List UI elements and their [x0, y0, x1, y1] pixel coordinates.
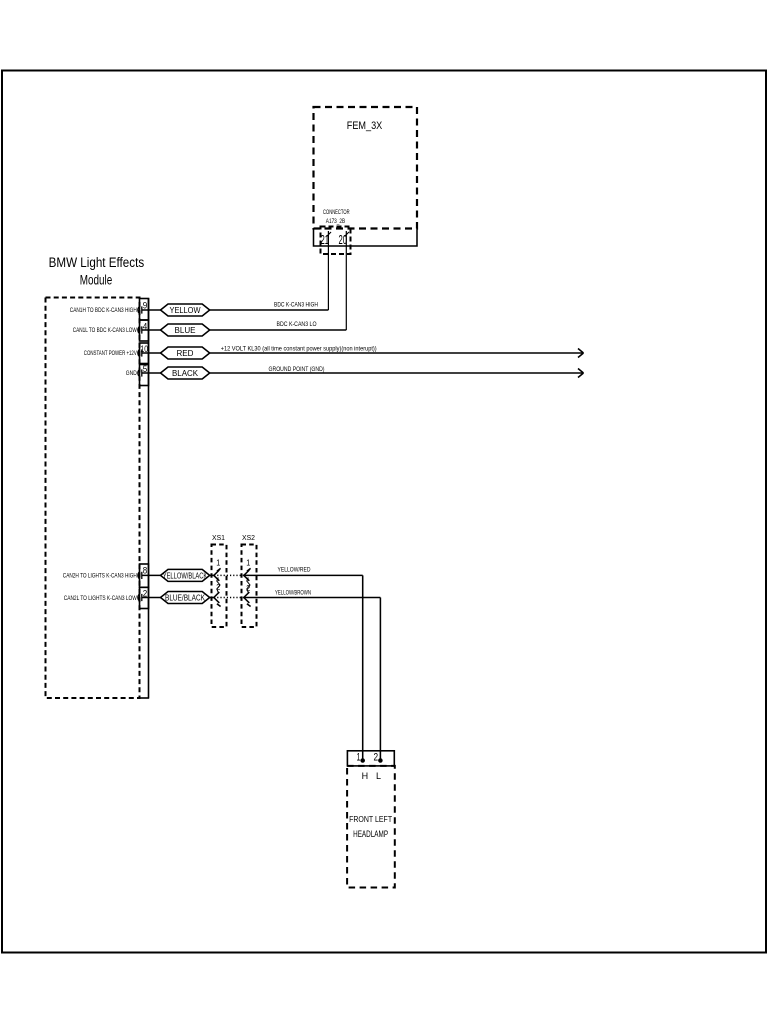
lamp DS1 dashed box — [347, 766, 395, 888]
svg-text:+12 VOLT KL30 (all time consta: +12 VOLT KL30 (all time constant power s… — [221, 345, 377, 352]
lamp DS1 FRONT LEFT HEADLAMP connector solid box — [347, 751, 394, 766]
connector XS2 dashed box — [242, 545, 257, 628]
svg-text:BMW Light Effects: BMW Light Effects — [49, 255, 145, 270]
headlamp pin 1 wire end — [361, 751, 364, 762]
pin socket symbol rowA — [138, 572, 142, 579]
svg-text:L: L — [376, 771, 381, 781]
wire FEM pin20 down to K-CAN3 LOW row — [345, 231, 349, 330]
pin socket symbol row3 — [138, 349, 142, 356]
svg-text:BLUE/BLACK: BLUE/BLACK — [165, 594, 205, 603]
pin socket symbol row2 — [138, 326, 142, 333]
svg-text:CONNECTOR: CONNECTOR — [323, 209, 350, 216]
wire row3 +12V constant power — [142, 349, 584, 358]
connector face of FEM_3X (solid) — [314, 229, 418, 247]
svg-text:FRONT LEFT: FRONT LEFT — [349, 815, 392, 824]
svg-text:CAN1H TO BDC K-CAN3 HIGH: CAN1H TO BDC K-CAN3 HIGH — [70, 307, 137, 314]
svg-text:1: 1 — [357, 751, 361, 763]
svg-text:FEM_3X: FEM_3X — [347, 120, 383, 132]
pin box 4 — [140, 320, 149, 341]
svg-text:1: 1 — [216, 558, 220, 568]
XS2 rowB arrow — [244, 592, 251, 606]
wire row2 K-CAN3 LO — [142, 329, 346, 331]
svg-text:BDC K-CAN3 LO: BDC K-CAN3 LO — [277, 321, 317, 328]
module U2 connector strip right edge — [148, 298, 150, 699]
wire rowB CAN2L lights — [142, 598, 380, 752]
svg-text:A173_2B: A173_2B — [326, 218, 346, 225]
pin box 10 — [140, 343, 149, 364]
svg-text:BLUE: BLUE — [175, 326, 197, 335]
XS2 pin link zigzag — [247, 578, 250, 593]
svg-text:RED: RED — [177, 349, 194, 358]
svg-text:H: H — [362, 771, 369, 781]
headlamp pin 2 wire end — [379, 751, 382, 762]
XS2 rowA arrow — [244, 568, 251, 580]
wire FEM pin21 down to K-CAN3 HIGH row — [327, 231, 331, 310]
XS1 rowB arrow — [214, 592, 221, 606]
svg-text:GROUND POINT (GND): GROUND POINT (GND) — [269, 366, 325, 373]
svg-text:2: 2 — [374, 751, 379, 763]
wire label BLUE — [161, 324, 210, 336]
wire row1 K-CAN3 HIGH — [142, 309, 328, 311]
svg-text:CAN2H TO LIGHTS K-CAN3 HIGH: CAN2H TO LIGHTS K-CAN3 HIGH — [63, 573, 137, 580]
XS1 rowA arrow — [214, 568, 221, 580]
svg-text:BDC K-CAN3 HIGH: BDC K-CAN3 HIGH — [274, 302, 318, 309]
svg-text:4: 4 — [143, 322, 148, 333]
pin box 9 — [140, 299, 149, 321]
pin box 5 — [140, 365, 149, 386]
wire label RED — [161, 347, 210, 359]
svg-text:CONSTANT POWER +12V: CONSTANT POWER +12V — [84, 350, 137, 357]
wire rowA CAN2H lights — [142, 575, 363, 751]
svg-text:21: 21 — [321, 232, 330, 247]
pin socket symbol row4 — [138, 369, 142, 376]
svg-text:XS2: XS2 — [242, 533, 255, 542]
wire label YELLOW/BLACK — [161, 569, 210, 581]
pin box 8 — [140, 564, 149, 587]
svg-text:CAN2L TO LIGHTS K-CAN3 LOW: CAN2L TO LIGHTS K-CAN3 LOW — [64, 595, 137, 602]
svg-text:YELLOW: YELLOW — [170, 306, 201, 315]
wire row4 ground — [142, 369, 584, 378]
pin socket symbol row1 — [138, 306, 142, 313]
pin socket symbol rowB — [138, 594, 142, 601]
module U2 dashed box — [46, 298, 140, 699]
module U1 FEM_3X dashed box — [314, 107, 418, 229]
wire label YELLOW — [161, 304, 210, 316]
svg-text:Module: Module — [80, 273, 113, 288]
pin box 2 — [140, 587, 149, 608]
svg-text:XS1: XS1 — [212, 533, 225, 542]
wire label BLACK — [161, 367, 210, 379]
svg-text:HEADLAMP: HEADLAMP — [353, 829, 388, 839]
svg-text:YELLOW/BLACK: YELLOW/BLACK — [163, 572, 208, 581]
svg-text:GND: GND — [126, 370, 137, 377]
svg-text:CAN1L TO BDC K-CAN3 LOW: CAN1L TO BDC K-CAN3 LOW — [73, 327, 137, 334]
svg-text:YELLOW/RED: YELLOW/RED — [278, 567, 311, 574]
svg-text:BLACK: BLACK — [172, 369, 199, 378]
svg-text:YELLOW/BROWN: YELLOW/BROWN — [275, 590, 311, 597]
svg-text:1: 1 — [246, 558, 250, 568]
connector A173_2B small dashed box — [321, 227, 351, 255]
XS1 pin link zigzag — [217, 578, 220, 593]
module U2 strip bottom tie — [140, 697, 150, 699]
connector XS1 dashed box — [212, 545, 227, 628]
wire label BLUE/BLACK — [161, 592, 210, 604]
